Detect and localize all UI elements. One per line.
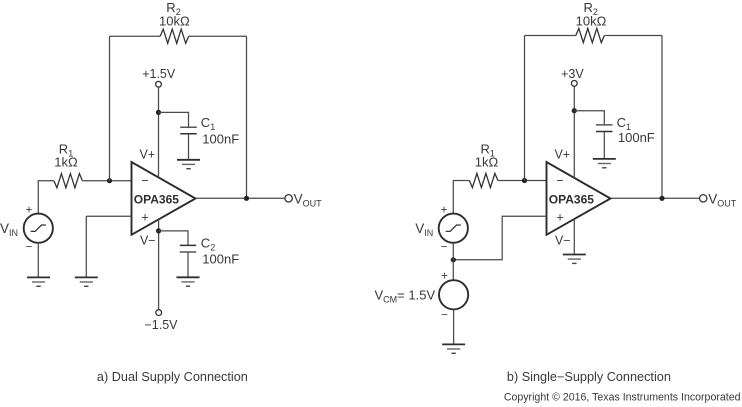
source VIN (left) [24, 214, 53, 243]
wire [453, 216, 546, 260]
svg-text:+: + [556, 210, 563, 224]
svg-text:+: + [141, 210, 148, 224]
wire [37, 243, 39, 278]
ground VIN (left) [27, 276, 50, 278]
svg-text:100nF: 100nF [202, 251, 239, 266]
svg-text:+3V: +3V [561, 67, 584, 81]
svg-text:1kΩ: 1kΩ [475, 155, 499, 170]
wire [603, 132, 605, 159]
wire [196, 197, 285, 199]
node V- supply (left) [156, 228, 161, 233]
node V+ supply (left) [156, 110, 161, 115]
wire [573, 219, 575, 255]
source VIN (right) [439, 214, 468, 243]
svg-text:−: − [26, 242, 33, 254]
wire [109, 36, 111, 181]
node output (right) [659, 196, 664, 201]
wire [110, 35, 161, 37]
wire [604, 35, 662, 37]
wire [498, 180, 547, 182]
svg-text:−: − [441, 310, 448, 322]
terminal +1.5V [156, 81, 162, 87]
ground VCM [442, 343, 465, 345]
node V+ supply (right) [572, 108, 577, 113]
source VCM 1.5V [439, 280, 468, 309]
svg-text:+1.5V: +1.5V [142, 67, 176, 81]
wire [158, 87, 160, 177]
svg-text:100nF: 100nF [618, 130, 655, 145]
resistor R1 (right) [469, 173, 498, 187]
wire [525, 35, 576, 37]
svg-text:1kΩ: 1kΩ [54, 155, 78, 170]
svg-text:V−: V− [140, 234, 156, 248]
svg-text:−1.5V: −1.5V [144, 318, 178, 332]
terminal +3V [571, 81, 577, 87]
terminal -1.5V [156, 310, 162, 316]
wire [573, 86, 575, 178]
wire [452, 243, 454, 280]
ground noninverting input (left) [75, 276, 98, 278]
svg-text:OPA365: OPA365 [549, 193, 594, 207]
svg-text:10kΩ: 10kΩ [576, 14, 607, 29]
wire [453, 181, 469, 214]
svg-text:V+: V+ [139, 147, 155, 161]
wire [86, 215, 131, 217]
svg-text:a) Dual Supply Connection: a) Dual Supply Connection [97, 370, 248, 384]
resistor R2 (right) [576, 28, 605, 42]
svg-text:+: + [26, 205, 33, 217]
svg-text:+: + [441, 271, 448, 283]
svg-text:−: − [441, 242, 448, 254]
wire [158, 219, 160, 309]
terminal VOUT (right) [700, 195, 707, 202]
wire [574, 111, 604, 125]
wire [82, 180, 131, 182]
wire [188, 134, 190, 160]
wire [661, 36, 663, 199]
svg-text:OPA365: OPA365 [134, 193, 179, 207]
op-amp U1 OPA365 (right) [547, 162, 611, 235]
wire [189, 35, 247, 37]
op-amp U1 OPA365 (left) [132, 162, 196, 235]
ground C1 (left) [177, 159, 200, 161]
svg-text:100nF: 100nF [202, 131, 239, 146]
node VCM junction [451, 257, 456, 262]
svg-text:V−: V− [555, 234, 571, 248]
ground C2 (left) [177, 276, 200, 278]
wire [159, 112, 189, 127]
svg-text:V+: V+ [554, 147, 570, 161]
resistor R1 (left) [54, 174, 83, 188]
resistor R2 (left) [160, 29, 189, 43]
wire [246, 36, 248, 198]
svg-text:−: − [141, 174, 148, 188]
capacitor C1 (right) [596, 124, 613, 126]
capacitor C1 (left) [180, 126, 197, 128]
capacitor C2 (left) [180, 244, 196, 246]
wire [611, 197, 700, 199]
ground C1 (right) [593, 158, 616, 160]
wire [453, 309, 455, 344]
wire [187, 252, 189, 277]
wire [524, 36, 526, 181]
svg-text:Copyright © 2016, Texas Instru: Copyright © 2016, Texas Instruments Inco… [504, 392, 741, 404]
ground V- (right) [563, 254, 586, 256]
node inverting input (right) [522, 178, 527, 183]
node output (left) [244, 196, 249, 201]
wire [38, 181, 54, 214]
terminal VOUT (left) [285, 195, 292, 202]
svg-text:b) Single−Supply Connection: b) Single−Supply Connection [507, 370, 671, 384]
wire [85, 216, 87, 277]
svg-text:10kΩ: 10kΩ [159, 14, 190, 29]
wire [159, 231, 188, 246]
svg-text:+: + [441, 205, 448, 217]
node inverting input (left) [107, 178, 112, 183]
svg-text:−: − [556, 174, 563, 188]
